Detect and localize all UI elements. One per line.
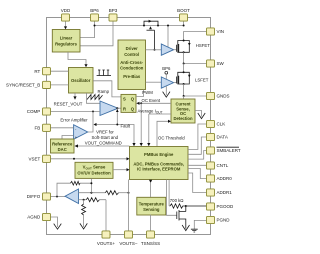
PWM latch U-SR <box>121 94 136 112</box>
svg-text:VREF for: VREF for <box>96 130 114 135</box>
wire PMBus to PGOOD FET gate <box>167 180 177 216</box>
fault line <box>96 125 135 144</box>
pin VDD <box>62 14 70 21</box>
node LSFET drain <box>183 71 185 73</box>
svg-text:RESET_VOUT: RESET_VOUT <box>54 102 83 107</box>
VOUT sense block U-VS <box>75 162 113 178</box>
node GNDS junction <box>183 95 185 97</box>
svg-text:Ramp: Ramp <box>98 89 110 94</box>
wire driver control to HS driver <box>146 49 162 51</box>
temperature sensing U-TS <box>137 197 166 215</box>
op-amp HS gate driver <box>161 44 173 55</box>
wire LSFET source to GNDS <box>184 84 207 96</box>
svg-text:700 kΩ: 700 kΩ <box>170 198 185 203</box>
svg-text:SYNC/RESET_B: SYNC/RESET_B <box>6 83 40 88</box>
driver control block U-DRV <box>118 40 146 90</box>
svg-text:CLK: CLK <box>217 122 226 127</box>
node BP6/boot <box>94 25 96 27</box>
svg-text:Sensing: Sensing <box>143 207 160 212</box>
wire RD from plus input <box>83 200 85 204</box>
pin BP6 <box>91 14 99 21</box>
node boot switch right <box>157 25 159 27</box>
wire diff amp minus input <box>79 192 106 194</box>
wire AGND to ground <box>51 217 58 227</box>
wire HSFET source to SW <box>184 52 207 63</box>
wire VSET to PMBus <box>51 158 127 160</box>
svg-text:OC Threshold: OC Threshold <box>158 136 185 141</box>
resistor RB <box>105 191 118 195</box>
svg-text:Oscillator: Oscillator <box>71 78 91 83</box>
node boot/BOOT riser <box>183 25 185 27</box>
svg-text:FB: FB <box>35 126 41 131</box>
ground AGND <box>54 224 62 230</box>
wire LS driver to LSFET gate <box>174 82 177 84</box>
node comparator output <box>116 107 118 109</box>
wire BP6 terminal to LS driver <box>165 74 167 79</box>
svg-text:CNTL: CNTL <box>217 163 229 168</box>
pin SMBALERT <box>207 147 215 154</box>
ground LS driver <box>165 86 167 95</box>
wire SYNC to oscillator <box>51 84 69 86</box>
resistor RD vertical <box>82 204 86 215</box>
svg-text:Linear: Linear <box>60 36 73 41</box>
pin ADDR0 <box>207 175 215 182</box>
svg-text:COMP: COMP <box>27 109 41 114</box>
wire average iout from current sense to PMBus <box>149 114 171 143</box>
pin PGND <box>207 216 215 223</box>
pin FB <box>43 124 51 131</box>
node COMP/error amp output <box>92 111 94 113</box>
pin ADDR1 <box>207 189 215 196</box>
wire BP6 net to BOOT pin <box>95 21 184 25</box>
svg-text:VOUTS+: VOUTS+ <box>97 241 116 246</box>
transistor boot switch <box>144 20 158 50</box>
op-amp LS gate driver <box>161 77 173 88</box>
transistor PGOOD FET <box>177 206 186 229</box>
node SW junction <box>183 63 185 65</box>
pin COMP <box>43 108 51 115</box>
arrow RESET_VOUT <box>73 96 76 99</box>
resistor RA feedback <box>71 181 81 185</box>
svg-text:BP6: BP6 <box>90 8 99 13</box>
pin BP3 <box>109 14 117 21</box>
node HSFET source <box>183 51 185 53</box>
node fault/comparator <box>116 124 118 126</box>
transistor LSFET <box>177 72 191 84</box>
PWM comparator U-CMP <box>100 101 118 116</box>
arrow VDD into linear regulators <box>64 26 67 29</box>
wire PMBus to reference DAC <box>77 145 130 147</box>
wire VOUTS- riser to PMBus <box>128 180 130 231</box>
wire temp sensing to PMBus <box>150 183 152 197</box>
svg-text:S: S <box>123 96 126 101</box>
pin PGOOD <box>207 203 215 210</box>
node plus input <box>83 199 85 201</box>
ground current sense <box>195 111 202 117</box>
svg-text:SMBALERT: SMBALERT <box>217 148 241 153</box>
pin VOUTS- <box>125 231 133 238</box>
wire HS driver to HSFET gate <box>174 49 177 51</box>
node HSFET drain <box>183 40 185 42</box>
svg-text:HSFET: HSFET <box>196 43 210 48</box>
wire comparator output down to fault line <box>116 108 118 124</box>
wire reference DAC to error amp <box>62 136 74 140</box>
svg-text:SW: SW <box>217 61 225 66</box>
wire comparator output to PWM latch <box>118 107 121 109</box>
pin AGND <box>43 213 51 220</box>
svg-text:Soft-Start and: Soft-Start and <box>92 135 119 140</box>
resistor RC <box>86 198 99 202</box>
outer IC boundary <box>47 18 211 235</box>
svg-text:GNDS: GNDS <box>217 94 230 99</box>
svg-text:Fault: Fault <box>121 124 131 129</box>
node DIFFO feedback <box>56 196 58 198</box>
wire PGND to earth <box>194 220 206 229</box>
wire oscillator clock to PWM latch S input <box>93 81 121 97</box>
svg-text:OC Event: OC Event <box>142 98 161 103</box>
node boot rail tap <box>167 25 169 27</box>
svg-text:VIN: VIN <box>217 29 225 34</box>
node LSFET source <box>183 83 185 85</box>
svg-text:Error Amplifier: Error Amplifier <box>60 118 88 123</box>
svg-text:VSET: VSET <box>29 157 41 162</box>
svg-text:Anti-Cross-: Anti-Cross- <box>120 60 143 65</box>
arrow into oscillator <box>84 64 87 67</box>
svg-text:PGOOD: PGOOD <box>217 204 235 209</box>
pin BOOT <box>180 14 188 21</box>
wire RB to VOUTS- riser <box>119 192 129 194</box>
wire error amp output up to COMP line <box>88 112 93 133</box>
wire DIFFO to diff amp <box>51 196 66 198</box>
wire CNTL to PMBus <box>188 164 207 166</box>
wire COMP to comparator <box>51 111 101 113</box>
PMBus engine U-PMB <box>130 147 189 180</box>
node OC event to PMBus <box>140 102 142 104</box>
wire FB to error amp <box>51 127 74 129</box>
svg-text:LSFET: LSFET <box>195 78 209 83</box>
wire SW node to LSFET drain <box>183 64 185 73</box>
op-amp error amplifier U-EA <box>74 125 88 140</box>
pin CLK <box>207 120 215 127</box>
node feedback top <box>90 192 92 194</box>
pin TSNS/SS <box>147 231 155 238</box>
svg-text:PWM: PWM <box>142 90 153 95</box>
node VOUTS- tap <box>128 192 130 194</box>
wire ramp from oscillator to PWM comparator <box>87 93 101 103</box>
pin DATA <box>207 133 215 140</box>
current sense block U-CS <box>171 99 195 123</box>
pin SW <box>207 60 215 67</box>
reference DAC U-DAC <box>51 139 75 153</box>
wire OC event to PWM latch R input <box>138 102 171 104</box>
svg-text:BP3: BP3 <box>109 8 118 13</box>
linear regulators U-LR <box>52 30 80 53</box>
terminal BP6 circle <box>165 71 168 74</box>
svg-text:Reference: Reference <box>52 141 73 146</box>
ground earth PGND <box>191 229 198 232</box>
node boot switch left <box>143 25 145 27</box>
svg-text:VOUT_COMMAND: VOUT_COMMAND <box>85 141 122 146</box>
svg-text:DAC: DAC <box>58 147 67 152</box>
wire RC to VOUTS+ riser <box>99 200 106 231</box>
wire VDD to linear regulators <box>65 21 67 27</box>
ground RD <box>80 223 87 229</box>
svg-text:DIFFO: DIFFO <box>27 194 41 199</box>
wire RESET_VOUT out of oscillator <box>74 93 76 97</box>
wire GNDS node to current sense <box>183 96 185 99</box>
svg-text:VOUTS−: VOUTS− <box>119 241 138 246</box>
oscillator U-OSC <box>69 68 94 94</box>
svg-text:IC Interface, EEPROM: IC Interface, EEPROM <box>137 166 181 171</box>
pin VSET <box>43 155 51 162</box>
wire DATA to PMBus <box>188 137 207 154</box>
svg-text:Detection: Detection <box>173 116 193 121</box>
wire linear regs to oscillator <box>68 52 86 65</box>
wire OC event down to PMBus <box>140 103 142 143</box>
wire CLK to PMBus <box>188 124 207 149</box>
wire PGOOD pullup from PMBus <box>168 180 171 207</box>
clock waveform symbol <box>97 70 111 76</box>
svg-text:Driver: Driver <box>126 46 138 51</box>
pin DIFFO <box>43 193 51 200</box>
svg-text:AGND: AGND <box>27 215 41 220</box>
wire VIN to HSFET drain <box>184 32 207 41</box>
svg-text:R: R <box>123 106 126 111</box>
transistor HSFET <box>177 41 191 53</box>
wire SMBALERT to PMBus <box>188 151 207 160</box>
ramp sawtooth symbol <box>87 95 103 100</box>
wire feedback resistor path <box>57 178 91 196</box>
pin CNTL <box>207 162 215 169</box>
svg-text:Pre-Bias: Pre-Bias <box>123 74 141 79</box>
pin RT <box>43 68 51 75</box>
pin VOUTS+ <box>102 231 110 238</box>
node RA junction <box>90 182 92 184</box>
wire OC threshold from PMBus to current sense <box>157 121 168 146</box>
svg-text:DATA: DATA <box>217 135 228 140</box>
wire diff amp plus input <box>79 199 87 201</box>
resistor 700k <box>170 204 207 208</box>
op-amp remote sense diff amp U-DA <box>65 189 79 204</box>
wire ADDR0 to PMBus <box>188 169 207 179</box>
wire RT to oscillator <box>51 70 69 72</box>
wire linear regs to BP3 pin <box>80 21 113 46</box>
pin SYNC/RESET_B <box>43 81 51 88</box>
svg-text:ADDR0: ADDR0 <box>217 176 233 181</box>
svg-text:ADDR1: ADDR1 <box>217 190 233 195</box>
wire TSNS pin to temp sensing <box>150 215 152 231</box>
svg-text:VDD: VDD <box>61 8 71 13</box>
pin GNDS <box>207 92 215 99</box>
svg-text:Control: Control <box>124 52 139 57</box>
svg-text:BOOT: BOOT <box>177 8 190 13</box>
wire PWM latch output to driver control <box>136 90 144 97</box>
svg-text:TSNS/SS: TSNS/SS <box>141 241 160 246</box>
pin VIN <box>207 28 215 35</box>
wire BOOT rail to HS driver supply <box>167 26 169 48</box>
svg-text:OV/UV Detection: OV/UV Detection <box>77 171 111 176</box>
wire ADDR1 to PMBus <box>188 173 207 193</box>
wire VOUT sense to PMBus <box>113 169 127 171</box>
svg-text:BP6: BP6 <box>162 66 171 71</box>
svg-text:PGND: PGND <box>217 218 231 223</box>
svg-text:Conduction: Conduction <box>120 66 144 71</box>
ground PGOOD FET <box>182 225 189 231</box>
svg-text:Regulators: Regulators <box>55 42 78 47</box>
wire linear regs to BP6 pin <box>80 21 95 37</box>
node PGOOD FET drain <box>185 205 187 207</box>
node boot switch gate to HS drive <box>154 49 156 51</box>
svg-text:PMBus Engine: PMBus Engine <box>144 152 174 157</box>
svg-text:Temperature: Temperature <box>139 201 165 206</box>
svg-text:RT: RT <box>34 69 40 74</box>
wire driver control to LS driver <box>146 81 162 83</box>
wire RD to ground <box>83 215 85 227</box>
